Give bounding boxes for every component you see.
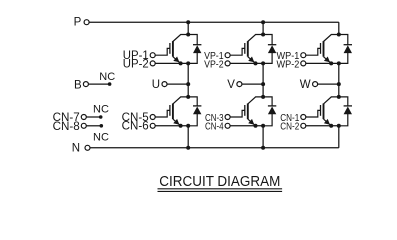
node U output junction	[186, 82, 190, 86]
wire V lower leg: emitter to N bus	[262, 126, 264, 148]
wire W leg: output node to lower collector	[338, 84, 340, 97]
node N-rail to U leg junction	[186, 146, 190, 150]
wire U mid leg: emitter to output node	[187, 63, 189, 84]
node QUH collector	[186, 33, 190, 37]
terminal VP-1 (gate of QVH)	[225, 53, 230, 58]
wire W mid leg: emitter to output node	[338, 63, 340, 84]
wire CN-6 emitter lead	[155, 125, 188, 127]
node emitter junction of QWH	[337, 61, 341, 65]
svg-text:U: U	[152, 79, 160, 91]
node QVH emitter slant junction	[254, 61, 258, 65]
transistor QVL (IGBT)	[245, 97, 263, 126]
diode DUL (freewheel)	[188, 97, 201, 126]
node P-rail to V leg junction	[261, 20, 265, 24]
diode DUH (freewheel)	[188, 35, 201, 64]
terminal CN-8 (not connected)	[81, 123, 86, 128]
svg-text:CN-2: CN-2	[280, 122, 299, 133]
svg-text:CIRCUIT DIAGRAM: CIRCUIT DIAGRAM	[159, 173, 280, 190]
terminal CN-4 (aux emitter of QVL)	[225, 123, 230, 128]
node QWH collector	[337, 33, 341, 37]
node QVH collector	[261, 33, 265, 37]
diode DWL (freewheel)	[339, 97, 352, 126]
node W output junction	[337, 82, 341, 86]
node CN-7 stub end (NC)	[99, 115, 103, 119]
wire WP-1 gate lead	[306, 48, 321, 55]
node QUL collector	[186, 95, 190, 99]
wire VP-1 gate lead	[230, 48, 245, 55]
terminal VP-2 (aux emitter of QVH)	[225, 61, 230, 66]
wire CN-4 emitter lead	[230, 125, 263, 127]
terminal WP-1 (gate of QWH)	[301, 53, 306, 58]
svg-text:P: P	[74, 17, 82, 29]
svg-text:WP-2: WP-2	[277, 59, 300, 70]
node QUL emitter slant junction	[179, 124, 183, 128]
wire W upper leg: bus to collector	[338, 22, 340, 34]
wire CN-1 gate lead	[306, 110, 321, 117]
terminal UP-2 (aux emitter of QUH)	[150, 61, 155, 66]
terminal U (phase output)	[162, 82, 167, 87]
wire W lower leg: emitter to N bus	[338, 126, 340, 148]
wire U upper leg: bus to collector	[187, 22, 189, 34]
svg-text:CN-4: CN-4	[205, 122, 224, 133]
wire UP-2 emitter lead	[155, 62, 188, 64]
svg-text:CN-8: CN-8	[53, 121, 80, 133]
node emitter junction of QWL	[337, 124, 341, 128]
node V output junction	[261, 82, 265, 86]
svg-text:CN-6: CN-6	[122, 121, 149, 133]
wire P bus rail	[89, 21, 338, 23]
diode DWH (freewheel)	[339, 35, 352, 64]
transistor QWL (IGBT)	[321, 97, 339, 126]
wire CN-3 gate lead	[230, 110, 245, 117]
node emitter junction of QVL	[261, 124, 265, 128]
wire V output lead	[242, 83, 263, 85]
terminal P (positive DC bus)	[84, 20, 89, 25]
node QVL emitter slant junction	[254, 124, 258, 128]
svg-text:NC: NC	[93, 104, 109, 116]
node QVL collector	[261, 95, 265, 99]
terminal W (phase output)	[313, 82, 318, 87]
node P-rail to U leg junction	[186, 20, 190, 24]
svg-text:NC: NC	[93, 132, 109, 144]
terminal CN-7 (not connected)	[81, 115, 86, 120]
wire CN-2 emitter lead	[306, 125, 339, 127]
terminal N (negative DC bus)	[85, 145, 90, 150]
diode DVH (freewheel)	[263, 35, 276, 64]
svg-text:B: B	[74, 79, 82, 91]
wire WP-2 emitter lead	[306, 62, 339, 64]
svg-text:V: V	[227, 79, 235, 91]
node QWL collector	[337, 95, 341, 99]
wire U leg: output node to lower collector	[187, 84, 189, 97]
transistor QWH (IGBT)	[321, 35, 339, 64]
node emitter junction of QUL	[186, 124, 190, 128]
terminal CN-6 (aux emitter of QUL)	[150, 123, 155, 128]
terminal B (brake, not connected)	[83, 82, 88, 87]
title underline lower	[158, 190, 283, 192]
node N-rail to V leg junction	[261, 146, 265, 150]
wire CN-8 stub	[87, 125, 102, 127]
wire V leg: output node to lower collector	[262, 84, 264, 97]
wire V upper leg: bus to collector	[262, 22, 264, 34]
diode DVL (freewheel)	[263, 97, 276, 126]
node emitter junction of QUH	[186, 61, 190, 65]
svg-text:N: N	[72, 143, 80, 155]
title underline upper	[158, 188, 283, 190]
terminal CN-5 (gate of QUL)	[150, 115, 155, 120]
terminal WP-2 (aux emitter of QWH)	[301, 61, 306, 66]
svg-text:UP-2: UP-2	[123, 58, 149, 70]
node CN-8 stub end (NC)	[100, 124, 104, 128]
svg-text:VP-2: VP-2	[204, 59, 224, 70]
node B stub end (NC)	[108, 82, 112, 86]
svg-text:W: W	[300, 79, 311, 91]
transistor QUH (IGBT)	[170, 35, 188, 64]
node emitter junction of QVH	[261, 61, 265, 65]
transistor QUL (IGBT)	[170, 97, 188, 126]
wire UP-1 gate lead	[155, 48, 170, 55]
wire VP-2 emitter lead	[230, 62, 263, 64]
wire N bus rail	[90, 147, 339, 149]
terminal UP-1 (gate of QUH)	[150, 53, 155, 58]
terminal CN-3 (gate of QVL)	[225, 115, 230, 120]
wire U output lead	[167, 83, 188, 85]
terminal CN-1 (gate of QWL)	[301, 115, 306, 120]
node QWH emitter slant junction	[329, 61, 333, 65]
wire U lower leg: emitter to N bus	[187, 126, 189, 148]
wire V mid leg: emitter to output node	[262, 63, 264, 84]
wire B stub	[89, 83, 110, 85]
svg-text:NC: NC	[99, 71, 115, 83]
terminal CN-2 (aux emitter of QWL)	[301, 123, 306, 128]
wire CN-7 stub	[87, 116, 101, 118]
wire CN-5 gate lead	[155, 110, 170, 117]
wire W output lead	[318, 83, 339, 85]
terminal V (phase output)	[237, 82, 242, 87]
node QWL emitter slant junction	[329, 124, 333, 128]
node QUH emitter slant junction	[179, 61, 183, 65]
transistor QVH (IGBT)	[245, 35, 263, 64]
